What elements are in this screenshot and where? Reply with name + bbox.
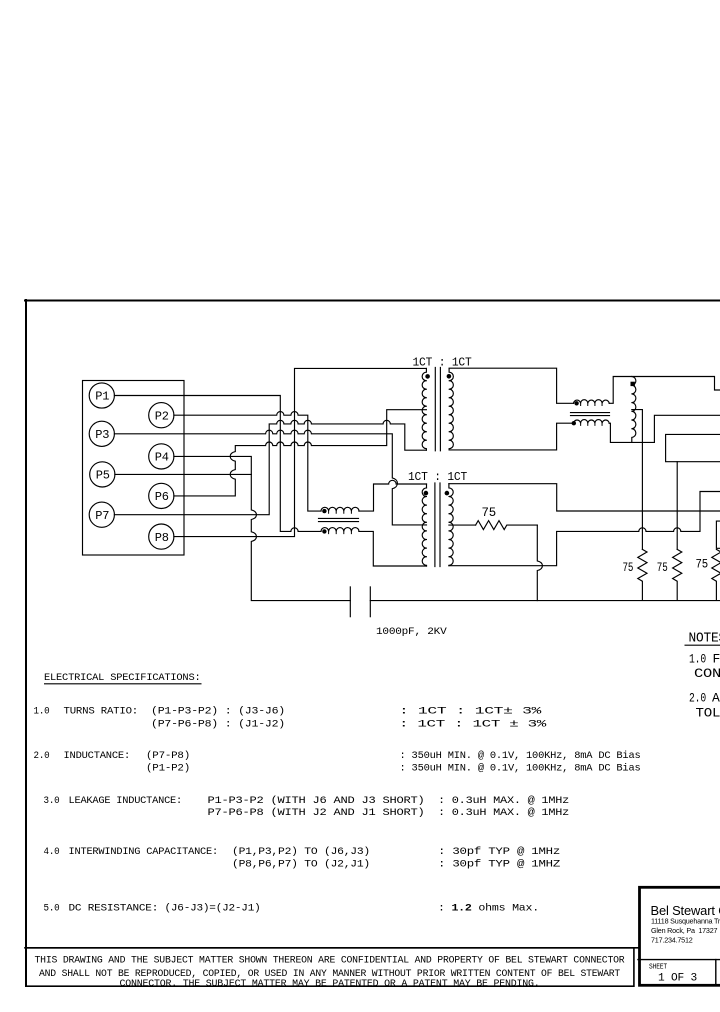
- pin P5: [90, 462, 115, 487]
- wire T2 secondary bottom rail: [449, 492, 720, 566]
- svg-text:ELECTRICAL SPECIFICATIONS:: ELECTRICAL SPECIFICATIONS:: [44, 673, 200, 684]
- svg-text:INTERWINDING CAPACITANCE:: INTERWINDING CAPACITANCE:: [69, 847, 219, 858]
- title block: [638, 887, 720, 985]
- T1 secondary winding: [449, 368, 453, 450]
- svg-text:: 0.3uH MAX. @ 1MHz: : 0.3uH MAX. @ 1MHz: [438, 795, 569, 807]
- svg-text:: 30pf TYP @ 1MHz: : 30pf TYP @ 1MHz: [438, 846, 560, 858]
- svg-text:P6: P6: [155, 490, 169, 504]
- svg-text:TOLE: TOLE: [696, 706, 720, 721]
- T1 core: [435, 368, 440, 451]
- lower choke winding1: [321, 507, 359, 511]
- upper choke ticks: [581, 403, 602, 405]
- wire T2 secondary top rail exit: [449, 484, 720, 511]
- svg-text:2.0: 2.0: [34, 751, 50, 762]
- T1 phase dot secondary: [447, 374, 452, 379]
- T2 winding ticks: [424, 497, 426, 557]
- resistor R1 75: [638, 549, 647, 600]
- svg-text:5.0: 5.0: [44, 903, 60, 914]
- wire choke w2 right to autotransformer bottom rail: [609, 415, 720, 442]
- upper choke winding2: [574, 420, 610, 424]
- svg-text:1.0: 1.0: [689, 652, 706, 667]
- svg-text:P3: P3: [95, 428, 109, 442]
- pin P6: [149, 483, 174, 508]
- svg-text:75: 75: [623, 560, 634, 575]
- svg-text:1.0: 1.0: [34, 706, 50, 717]
- lower choke core: [319, 518, 359, 521]
- lower choke dot w1: [322, 509, 326, 513]
- lower choke ticks: [329, 511, 352, 513]
- wire P6 to T1 center tap: [174, 410, 427, 496]
- SCHEMATIC: [83, 368, 720, 617]
- T2 phase dot primary: [424, 491, 429, 496]
- svg-text:INDUCTANCE:: INDUCTANCE:: [64, 751, 131, 762]
- svg-text:3.0: 3.0: [44, 796, 60, 807]
- svg-text:Glen Rock, Pa 17327: Glen Rock, Pa 17327: [651, 926, 718, 935]
- wire resistor to bottom junction: [537, 525, 542, 601]
- svg-text:2.0: 2.0: [689, 690, 706, 705]
- pin labels: [95, 390, 169, 545]
- svg-text:: 1.2 ohms Max.: : 1.2 ohms Max.: [438, 902, 539, 914]
- svg-text:LEAKAGE INDUCTANCE:: LEAKAGE INDUCTANCE:: [69, 796, 183, 807]
- svg-text:CONN: CONN: [694, 666, 720, 681]
- upper choke winding1: [574, 400, 610, 404]
- svg-text:P7-P6-P8 (WITH J2 AND J1 SHORT: P7-P6-P8 (WITH J2 AND J1 SHORT): [208, 807, 425, 819]
- svg-text:THIS DRAWING AND THE SUBJECT M: THIS DRAWING AND THE SUBJECT MATTER SHOW…: [35, 955, 625, 966]
- svg-text:75: 75: [657, 560, 668, 575]
- wire T1 secondary bottom to upper choke w2: [449, 423, 573, 450]
- svg-text:1CT : 1CT: 1CT : 1CT: [408, 471, 467, 484]
- svg-text:1000pF, 2KV: 1000pF, 2KV: [376, 627, 448, 638]
- svg-text:4.0: 4.0: [44, 847, 60, 858]
- wire P2 to lower choke winding1: [174, 412, 321, 512]
- pin P4: [149, 444, 174, 469]
- svg-text:75: 75: [482, 505, 497, 520]
- wire lower choke w1 right to T2 top: [359, 480, 427, 511]
- resistor R2 75: [673, 549, 682, 600]
- lower choke winding2: [321, 528, 359, 532]
- disclaimer text: [35, 955, 625, 990]
- svg-text:FOR: FOR: [713, 652, 720, 667]
- lower choke dot w2: [322, 529, 326, 533]
- pin P2: [149, 403, 174, 428]
- disclaimer box: [26, 948, 634, 986]
- svg-text:1CT : 1CT: 1CT : 1CT: [413, 356, 472, 369]
- wire P5 joins P4: [115, 473, 251, 475]
- capacitor 1000pF plate right: [369, 587, 371, 617]
- title block address: [651, 917, 720, 945]
- svg-text:TURNS RATIO:: TURNS RATIO:: [64, 706, 139, 717]
- svg-text:: 350uH MIN. @ 0.1V, 100KHz, 8: : 350uH MIN. @ 0.1V, 100KHz, 8mA DC Bias: [400, 750, 641, 762]
- wire P8 to T1 primary top: [174, 368, 427, 536]
- capacitor 1000pF plate left: [349, 587, 351, 617]
- resistor 75 horizontal: [476, 521, 538, 530]
- wire lower choke w2 right to T2 bottom: [359, 531, 427, 566]
- T1 transformer 1CT:1CT: [422, 368, 453, 451]
- svg-text:: 1CT : 1CT± 3%: : 1CT : 1CT± 3%: [399, 706, 543, 717]
- wire capacitor right to ground rail: [370, 600, 720, 602]
- svg-text:P5: P5: [96, 469, 110, 483]
- pin P3: [89, 421, 114, 446]
- wire P3 to T2 center tap: [114, 430, 426, 525]
- wire P7 to T1 primary bottom: [114, 420, 426, 514]
- T2 secondary winding: [449, 484, 453, 566]
- svg-text:P7: P7: [95, 509, 109, 523]
- svg-text:P4: P4: [155, 451, 169, 465]
- svg-text:AL: AL: [712, 690, 720, 705]
- svg-text:Bel Stewart Connector: Bel Stewart Connector: [651, 903, 720, 918]
- pin P8: [149, 524, 174, 549]
- svg-text:: 1CT : 1CT ± 3%: : 1CT : 1CT ± 3%: [399, 719, 548, 730]
- autotransformer winding: [632, 377, 636, 443]
- svg-text:(P1,P3,P2) TO (J6,J3): (P1,P3,P2) TO (J6,J3): [232, 846, 370, 858]
- autotransformer square dot: [631, 382, 635, 386]
- svg-text:P2: P2: [155, 409, 169, 423]
- svg-text:P1-P3-P2 (WITH J6 AND J3 SHORT: P1-P3-P2 (WITH J6 AND J3 SHORT): [208, 795, 425, 807]
- svg-text:SHEET: SHEET: [649, 964, 668, 972]
- upper choke core: [571, 413, 610, 416]
- border frame: [25, 300, 720, 986]
- svg-text:: 350uH MIN. @ 0.1V, 100KHz, 8: : 350uH MIN. @ 0.1V, 100KHz, 8mA DC Bias: [400, 763, 641, 775]
- connector box P: [83, 381, 185, 556]
- T2 core: [435, 483, 440, 567]
- upper choke dot w1: [574, 401, 578, 405]
- T2 transformer 1CT:1CT: [359, 480, 453, 566]
- T1 phase dot primary: [425, 374, 430, 379]
- upper choke dot w2: [572, 421, 576, 425]
- svg-text:: 30pf TYP @ 1MHZ: : 30pf TYP @ 1MHZ: [438, 858, 560, 870]
- svg-text:: 0.3uH MAX. @ 1MHz: : 0.3uH MAX. @ 1MHz: [438, 807, 569, 819]
- svg-text:P8: P8: [155, 531, 169, 545]
- autotransformer center tap to R1 and exit: [632, 410, 643, 550]
- T2 phase dot secondary: [445, 491, 450, 496]
- svg-text:75: 75: [696, 556, 709, 571]
- T2 primary top lead: [426, 484, 428, 488]
- svg-text:NOTES:: NOTES:: [689, 632, 720, 647]
- wire resistor R2 feed: [676, 462, 678, 550]
- pin P7: [89, 502, 114, 527]
- wire T1 secondary top to upper choke w1: [449, 368, 573, 403]
- svg-text:1 OF 3: 1 OF 3: [658, 973, 697, 985]
- J box bracket: [716, 521, 720, 548]
- svg-text:(P7-P6-P8) : (J1-J2): (P7-P6-P8) : (J1-J2): [151, 718, 285, 730]
- wire choke w1 right to autotransformer top: [609, 377, 720, 404]
- resistor R3 75: [712, 549, 720, 600]
- svg-text:P1: P1: [95, 390, 109, 404]
- svg-text:DC RESISTANCE: (J6-J3)=(J2-J1): DC RESISTANCE: (J6-J3)=(J2-J1): [69, 902, 261, 914]
- svg-text:CONNECTOR. THE SUBJECT MATTER: CONNECTOR. THE SUBJECT MATTER MAY BE PAT…: [120, 978, 540, 989]
- wire T2 secondary center tap to resistor 75: [449, 524, 476, 526]
- T1 winding ticks: [424, 381, 426, 441]
- svg-text:(P1-P3-P2) : (J3-J6): (P1-P3-P2) : (J3-J6): [151, 705, 285, 717]
- wire P1 to lower choke winding2: [114, 396, 321, 532]
- svg-text:717.234.7512: 717.234.7512: [651, 935, 693, 944]
- svg-text:(P7-P8): (P7-P8): [146, 750, 190, 762]
- wire P4 to capacitor: [174, 456, 350, 600]
- svg-text:(P8,P6,P7) TO (J2,J1): (P8,P6,P7) TO (J2,J1): [232, 858, 370, 870]
- T1 primary winding: [422, 368, 426, 450]
- wire exit J mid: [666, 434, 720, 461]
- pin P1: [89, 383, 114, 408]
- T2 primary winding: [422, 488, 426, 566]
- autotransformer winding ticks: [632, 385, 634, 429]
- svg-text:(P1-P2): (P1-P2): [146, 763, 190, 775]
- svg-text:11118 Susquehanna Trail South: 11118 Susquehanna Trail South: [651, 917, 720, 926]
